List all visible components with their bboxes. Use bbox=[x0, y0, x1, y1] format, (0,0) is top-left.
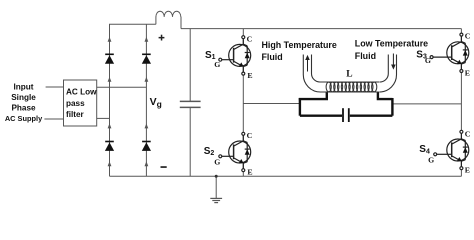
wire inductor left riser bbox=[155, 17, 157, 25]
node: AC input labels bbox=[5, 83, 43, 124]
transistor S4 bbox=[434, 130, 469, 169]
capacitor C (tank) bbox=[343, 108, 349, 122]
svg-text:C: C bbox=[465, 31, 471, 40]
wire input line 1 bbox=[46, 86, 64, 88]
svg-text:AC Low: AC Low bbox=[66, 87, 97, 96]
node: + (DC bus positive) bbox=[159, 35, 165, 41]
node: - (DC bus negative) bbox=[161, 166, 167, 168]
svg-text:Input: Input bbox=[13, 83, 33, 92]
transistor S3 bbox=[430, 33, 469, 72]
diode D2 (bridge upper-right) bbox=[142, 54, 151, 63]
svg-text:E: E bbox=[465, 166, 470, 175]
wire ground stem bbox=[215, 176, 217, 198]
wire inductor right riser bbox=[180, 17, 182, 29]
svg-text:Low Temperature: Low Temperature bbox=[355, 39, 428, 49]
svg-text:G: G bbox=[428, 155, 434, 164]
capacitor (DC link) bbox=[180, 101, 201, 107]
wire leg2 mid bbox=[460, 35, 462, 169]
svg-text:Fluid: Fluid bbox=[262, 52, 283, 62]
wire bridge right leg bbox=[145, 24, 147, 176]
wire input line 2 bbox=[44, 118, 63, 120]
svg-text:pass: pass bbox=[66, 99, 85, 108]
wire top rail left bbox=[109, 23, 156, 25]
arrow: hot fluid up bbox=[307, 59, 309, 72]
svg-text:AC Supply: AC Supply bbox=[5, 114, 43, 123]
svg-text:G: G bbox=[214, 60, 220, 69]
wire leg2 bottom bbox=[460, 168, 462, 176]
wire leg1 top bbox=[242, 29, 244, 38]
wire leg1 mid bbox=[242, 37, 244, 170]
svg-text:E: E bbox=[247, 168, 252, 177]
wire top rail right bbox=[181, 28, 461, 30]
inductor L (work coil) bbox=[326, 82, 377, 92]
svg-text:C: C bbox=[247, 35, 253, 44]
diode D1 (bridge upper-left) bbox=[105, 54, 114, 63]
junction arrows on bridge legs bbox=[108, 37, 149, 167]
transistor S2 bbox=[219, 132, 251, 171]
svg-text:Fluid: Fluid bbox=[355, 51, 376, 61]
svg-text:C: C bbox=[465, 129, 471, 138]
svg-text:G: G bbox=[425, 56, 431, 65]
diode D3 (bridge lower-left) bbox=[105, 142, 114, 151]
wire AC node to left leg bbox=[97, 117, 110, 119]
AC low pass filter block bbox=[64, 80, 98, 126]
fluid pipe (heat exchanger tube) bbox=[303, 55, 396, 93]
wire leg1 bottom bbox=[242, 170, 244, 176]
wire dc capacitor top lead bbox=[189, 29, 191, 102]
ground bbox=[210, 198, 222, 202]
wire leg2 top bbox=[460, 29, 462, 35]
svg-text:E: E bbox=[247, 71, 252, 80]
svg-text:Single: Single bbox=[11, 93, 36, 102]
wire tank bus (thick) bbox=[299, 92, 393, 116]
svg-text:E: E bbox=[465, 68, 470, 77]
wire dc capacitor bottom lead bbox=[189, 107, 191, 176]
diode D4 (bridge lower-right) bbox=[142, 142, 151, 151]
transistor S1 bbox=[219, 36, 251, 75]
svg-text:filter: filter bbox=[66, 110, 85, 119]
inductor (DC link choke) bbox=[156, 11, 181, 17]
svg-text:Phase: Phase bbox=[11, 104, 36, 113]
svg-text:G: G bbox=[214, 158, 220, 167]
wire leg1 midpoint to tank bbox=[243, 103, 300, 105]
wire bottom rail bbox=[110, 175, 462, 177]
svg-text:L: L bbox=[346, 70, 352, 80]
junction: ground to bottom rail bbox=[215, 175, 218, 178]
wire AC node to right leg bbox=[97, 86, 147, 88]
wire bridge left leg bbox=[109, 24, 111, 176]
svg-text:High Temperature: High Temperature bbox=[262, 40, 337, 50]
wire tank to leg2 midpoint bbox=[392, 103, 461, 105]
svg-text:Vg: Vg bbox=[150, 96, 162, 109]
svg-text:C: C bbox=[247, 131, 253, 140]
arrow: cold fluid down bbox=[392, 54, 394, 65]
